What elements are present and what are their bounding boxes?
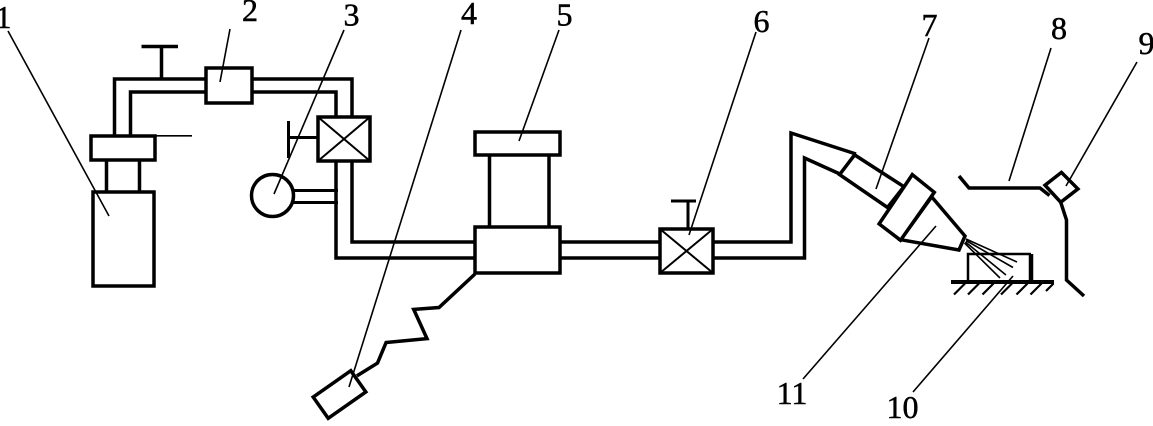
valve 6 crossed box (660, 229, 713, 273)
powder feeder 5 column (490, 155, 550, 227)
leader line 3 (274, 30, 344, 194)
leader line 1 (8, 31, 109, 216)
svg-text:9: 9 (1139, 25, 1153, 61)
svg-text:1: 1 (0, 0, 12, 35)
wire pipe outer run (valve 6 right, up, to torch) (713, 133, 856, 242)
wire pipe inner run (713, 158, 841, 258)
svg-text:7: 7 (922, 7, 938, 43)
torch body 7 (840, 155, 904, 208)
ground line (951, 280, 1054, 284)
workpiece 10 (968, 254, 1031, 282)
cylinder handle line (155, 135, 192, 137)
powder feeder 5 cap (475, 132, 560, 155)
wire pipe run (feeder 5 to valve 6) (560, 242, 660, 258)
collector 4 rotated box (313, 371, 366, 419)
crossed valve box above gauge (318, 117, 370, 161)
holder arm 8 (959, 176, 1050, 196)
svg-text:3: 3 (344, 0, 360, 33)
leader line 7 (876, 38, 929, 189)
powder feeder 5 base (475, 227, 560, 273)
gas cylinder 1 body (93, 192, 154, 286)
leader line 10 (913, 276, 1013, 392)
svg-text:2: 2 (242, 0, 258, 28)
cylinder cap (91, 136, 155, 160)
wire pipe outer run (regulator 2 right, down to crossed valve) (252, 79, 352, 117)
svg-text:10: 10 (887, 389, 919, 425)
wire pipe outer run (cylinder up and right to regulator 2) (115, 79, 207, 136)
sensor 9 wire (1061, 202, 1084, 296)
wire pipe inner run (252, 92, 336, 117)
valve 6 T-handle (671, 201, 696, 229)
svg-text:5: 5 (557, 0, 573, 33)
svg-text:6: 6 (754, 3, 770, 39)
svg-text:11: 11 (777, 375, 808, 411)
leader line 2 (220, 29, 230, 82)
leader line 11 (803, 226, 936, 379)
torch flange (879, 175, 934, 241)
valve T-handle on top pipe (142, 47, 179, 80)
leader line 8 (1009, 48, 1051, 181)
sensor 9 square (1045, 172, 1078, 202)
svg-text:8: 8 (1051, 10, 1067, 46)
leader line 6 (689, 32, 756, 235)
wire pipe outer run (crossed valve down and right) (336, 161, 475, 258)
torch nozzle cone 11 (901, 197, 965, 250)
gauge connecting pipe (292, 191, 338, 203)
leader line 9 (1066, 62, 1137, 186)
spray jet lines (965, 239, 1018, 278)
regulator 2 (206, 68, 252, 103)
wire pipe inner run (352, 161, 475, 242)
leader line 5 (519, 30, 559, 141)
crossed valve handle (287, 121, 318, 158)
pressure gauge 3 (252, 175, 294, 217)
leader line 4 (349, 30, 461, 387)
flexible hose zigzag to collector 4 (357, 274, 475, 376)
cylinder neck (107, 160, 140, 192)
svg-text:4: 4 (461, 0, 477, 31)
wire pipe inner run (131, 92, 207, 136)
ground hatching (954, 284, 1054, 295)
